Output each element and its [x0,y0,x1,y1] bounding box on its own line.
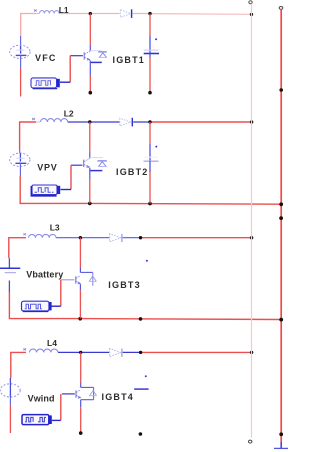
source Vbattery [0,258,20,292]
wire VPV top lead [19,149,21,153]
wire Vwind bottom stub [9,406,11,433]
node DC bus plus terminal circle [279,6,283,9]
wire gate2 from pulse generator [61,165,83,189]
pulse generator P1 [31,78,60,89]
node stage4 diode output junction [139,351,142,354]
IGBT2 body [84,158,107,179]
node stage3 switch junction [79,236,82,239]
pulse generator P2 [31,185,60,196]
wire IGBT2 emitter [89,179,91,204]
node C1 bottom end [148,91,152,95]
wire DC bus left (pink) [251,4,253,438]
IGBT1 body [84,51,107,76]
wire C1 bottom [149,58,151,93]
svg-text:VFC: VFC [35,53,57,63]
wire Vbattery bottom [9,292,80,319]
node stage3 bus junction [250,236,253,239]
node stage2 rail cap junction [148,202,152,206]
source Vwind [0,378,20,406]
wire IGBT3 emitter [79,290,81,318]
wire stage3 top horizontal [9,238,252,259]
IGBT U4 collector wire [80,352,82,387]
ground [274,442,288,449]
node stage2 bus junction [250,120,253,123]
node bus junction y204 [279,202,283,206]
node stage3 rail second junction [139,317,143,321]
node stage3 diode output junction [139,236,142,239]
wire stage2 top horizontal [20,122,252,149]
IGBT4 body [76,387,97,407]
wire IGBT4 emitter [80,407,82,433]
inductor L2 [32,118,67,122]
diode D2 [120,118,133,127]
wire gate4 from pulse generator [52,394,75,421]
capacitor C2 [144,122,159,172]
svg-text:IGBT4: IGBT4 [102,392,135,402]
node stage4 bus junction [250,351,253,354]
IGBT U1 collector wire [89,14,91,51]
node stage1 switch junction [89,12,92,15]
wire DC bus right (red) [280,9,282,441]
node bus junction y90 [279,88,283,92]
pulse generator P4 [22,415,52,425]
wire stage4 top horizontal [11,352,252,378]
source VFC [10,36,30,68]
node stage3 rail IGBT junction [78,317,82,321]
svg-text:Vbattery: Vbattery [26,270,63,280]
IGBT U3 collector wire [79,238,81,273]
capacitor C1 [144,14,159,58]
IGBT U2 collector wire [89,122,91,158]
wire IGBT1 emitter [89,76,91,93]
diode D1 [120,9,131,18]
diode D4 [110,348,122,356]
node IGBT4 emitter end [79,431,83,435]
node IGBT1 emitter end [89,91,93,95]
capacitor C4 remnant plate [134,375,148,389]
diode D3 [110,234,122,242]
node bus junction y218 [279,216,283,220]
node stage4 switch junction [79,351,82,354]
svg-text:L2: L2 [64,108,74,118]
inductor L3 [23,233,56,237]
svg-text:L3: L3 [50,222,60,232]
source VPV [10,153,30,176]
wire stage1 top horizontal (pink) [21,14,252,37]
node stage1 diode output junction [148,12,151,15]
pulse generator P3 [22,301,52,311]
svg-text:VPV: VPV [37,162,57,172]
svg-text:IGBT1: IGBT1 [113,55,146,65]
wire gate1 from pulse generator [60,56,83,82]
svg-text:IGBT3: IGBT3 [108,280,141,290]
node DC bus left bottom circle [249,440,252,443]
svg-text:IGBT2: IGBT2 [116,167,149,177]
wire stage2 left bottom [20,176,90,203]
IGBT3 body [76,272,97,290]
wire stage2 bottom rail [90,202,281,205]
node bus junction y319 [279,318,283,322]
wire gate3 from pulse generator [52,280,75,306]
svg-text:L1: L1 [59,5,69,15]
node stage2 diode output junction [148,120,151,123]
node stage2 switch junction [88,120,91,123]
wire C2 bottom [149,172,151,204]
wire VFC bottom stub [20,68,22,97]
capacitor C3 remnant mark [146,260,148,262]
node DC bus minus terminal circle [249,1,252,4]
wire stage3 bottom rail [80,318,281,321]
node stage2 rail IGBT junction [88,202,92,206]
svg-text:Vwind: Vwind [28,394,55,404]
inductor L4 [23,348,57,352]
svg-text:L4: L4 [47,338,57,348]
node bus junction y434 [279,432,283,436]
node stage4 lone junction [139,432,143,436]
node stage1 bus junction [250,13,253,16]
inductor L1 [34,10,59,14]
